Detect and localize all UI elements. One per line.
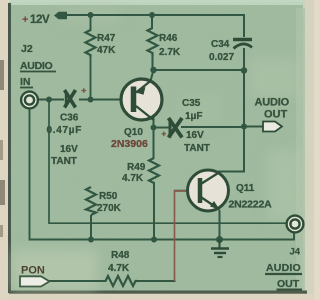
wire node A to Q10 base [91, 99, 132, 101]
node dot R50 ground [88, 237, 94, 243]
wire J2 signal branch down to upper rail [49, 100, 286, 224]
resistor R47 [86, 30, 96, 57]
node dot J2 tip branch [46, 97, 52, 103]
polarity + of C36 [82, 88, 87, 93]
wire R50 bottom lead [90, 215, 92, 240]
node dot Q11 emitter ground [216, 236, 223, 243]
resistor R50 [86, 187, 96, 215]
resistor R46 [148, 28, 158, 57]
capacitor C36 [65, 90, 76, 108]
wire C35 to output junction [182, 126, 244, 128]
wire R48 riser to Q11 base (faded red line) [175, 191, 199, 281]
wire Q10 emitter to R46 node [151, 70, 154, 81]
transistor Q11 (2N2222A NPN) [188, 170, 229, 211]
polarity + of C35 [162, 132, 167, 137]
wire +12V top rail [60, 15, 244, 36]
node A dot (Q10 base) [88, 97, 94, 103]
capacitor C34 [233, 40, 252, 49]
wire Q11 emitter to ground [219, 211, 221, 240]
wire R48 to corner [138, 280, 175, 282]
wire J2 tip to C36 [39, 99, 63, 101]
wire Q10 collector to C35 [154, 127, 169, 129]
PON input flag [20, 276, 50, 286]
node dot R46/C34 net [150, 67, 156, 73]
wire PON to R48 [48, 280, 106, 282]
transistor Q10 (2N3906 PNP) [121, 79, 162, 120]
wire C34 bottom to output junction [243, 49, 245, 127]
node dot R49 ground [151, 237, 157, 243]
+12V supply arrow [54, 12, 67, 19]
capacitor C35 [169, 118, 183, 138]
wire R46 bottom to C34 node [153, 69, 245, 71]
wire R47 leads [90, 15, 92, 100]
wire C36 to node A [80, 99, 91, 101]
wire Q10 collector node down to R49 [153, 118, 155, 158]
wire output junction to AUDIO OUT flag [244, 126, 263, 128]
ground symbol [211, 240, 229, 258]
node dot output junction [241, 124, 247, 130]
resistor R49 [149, 158, 159, 183]
wire R46 leads [151, 15, 154, 70]
node dot Q10 collector [151, 125, 157, 131]
resistor R48 (horizontal) [106, 276, 138, 286]
jack J4 [287, 216, 304, 233]
wire output junction down to Q11 collector corner [219, 127, 244, 172]
wire Q11 base [175, 190, 198, 192]
wire J2 sleeve down to ground rail [30, 109, 295, 240]
jack J2 [21, 92, 38, 109]
node dot C34 bottom [241, 67, 247, 73]
node dot rail-R46 [149, 12, 155, 18]
wire R49 bottom to ground rail [153, 183, 155, 240]
node dot rail-R47 [88, 12, 94, 18]
audio out flag (middle right) [263, 122, 282, 132]
